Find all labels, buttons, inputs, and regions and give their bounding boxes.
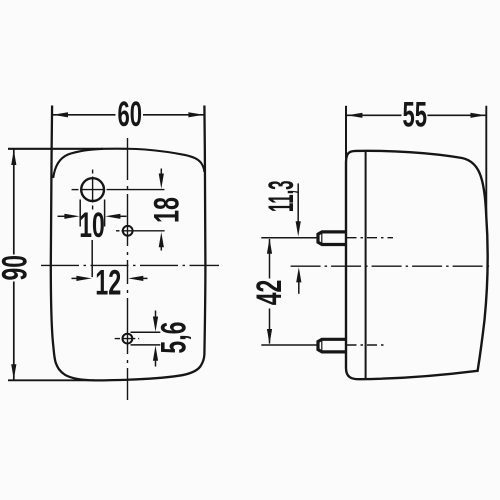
dimension 90 line lower segment <box>13 282 15 380</box>
bottom stud centerline <box>347 344 385 346</box>
dimension 18 line bottom arrow <box>160 243 162 251</box>
dimension 55 line left segment <box>346 114 402 116</box>
right view lamp body outline <box>346 151 488 379</box>
mounting hole circle (top, dia 10) <box>81 178 104 201</box>
left view body left edge (with dim extension tail) <box>51 106 205 381</box>
dimension 55 extension line left <box>345 106 347 158</box>
dimension 18 line top arrow <box>160 169 162 177</box>
dimension 60 arrow left <box>53 112 68 117</box>
dimension 60 line left segment <box>52 114 115 116</box>
dimension 12 arrow left <box>72 277 80 279</box>
hole crosshair vertical <box>92 170 94 210</box>
small hole circle (bottom, dia 5.6) <box>123 334 133 344</box>
dimension 42 line lower segment <box>269 309 271 344</box>
svg-text:60: 60 <box>118 95 143 134</box>
dimension 11,3 arrow down <box>296 221 301 236</box>
svg-text:90: 90 <box>0 255 34 281</box>
top stud thread line <box>321 233 323 245</box>
dimension 10 arrow right <box>118 215 127 217</box>
left view body right edge (with dim extension tail) <box>204 106 205 355</box>
dimension 55 line right segment <box>427 114 486 116</box>
dimension 5,6 extension line bottom <box>131 344 161 346</box>
dimension 10 extension line left <box>79 200 81 227</box>
svg-text:11,3: 11,3 <box>262 181 301 213</box>
hole centerline to dim 18 <box>81 189 165 191</box>
svg-text:10: 10 <box>79 206 105 245</box>
dimension 55 arrow right <box>471 113 486 118</box>
dimension 55 arrow left <box>347 113 362 118</box>
left view body top edge (with 90 extension tail) <box>8 149 204 172</box>
bottom hole crosshair horizontal <box>115 338 140 340</box>
svg-text:42: 42 <box>250 280 289 306</box>
left view body top-left corner <box>53 149 103 178</box>
left view bottom extension line <box>8 379 95 381</box>
dimension 11,3 arrow up <box>298 282 300 294</box>
dimension 90 arrow bottom <box>11 364 16 379</box>
dimension 5,6 arrow top <box>155 311 157 320</box>
hole crosshair horizontal <box>72 189 79 191</box>
small hole centerline to dim 18 <box>122 230 165 232</box>
right view lens parting line <box>365 151 367 378</box>
bottom mounting stud <box>318 339 346 352</box>
dimension 42 line upper segment <box>269 239 271 279</box>
svg-text:18: 18 <box>148 197 187 223</box>
top stud centerline <box>347 237 394 239</box>
svg-text:5,6: 5,6 <box>154 322 193 354</box>
top mounting stud <box>318 232 346 245</box>
dimension 12 extension line <box>91 240 93 277</box>
dimension 60 line right segment <box>143 114 204 116</box>
dimension 10 extension line right <box>104 200 106 227</box>
dimension 90 arrow top <box>11 150 16 165</box>
dimension 11,3 line upper <box>297 183 299 223</box>
bottom stud thread line <box>321 340 323 352</box>
small hole circle (middle) <box>123 226 133 236</box>
svg-text:55: 55 <box>403 95 428 134</box>
dimension 42 arrow top <box>267 239 272 254</box>
left view horizontal centerline <box>41 264 219 266</box>
dimension 42 extension line top <box>261 237 317 239</box>
small hole crosshair dash left <box>116 230 120 232</box>
dimension 5,6 extension line top <box>131 331 161 333</box>
dimension 60 arrow right <box>188 112 203 117</box>
dimension 10 arrow left <box>58 215 67 217</box>
svg-text:12: 12 <box>95 263 121 302</box>
left view vertical centerline <box>127 138 129 400</box>
dimension 42 extension line bottom <box>261 344 317 346</box>
dimension 42 arrow bottom <box>267 329 272 344</box>
dimension 12 arrow right <box>140 277 148 279</box>
dimension 5,6 arrow bottom <box>155 358 157 367</box>
dimension 90 line upper segment <box>13 149 15 254</box>
dimension 55 extension line right <box>485 106 487 215</box>
right view horizontal centerline <box>291 265 493 267</box>
